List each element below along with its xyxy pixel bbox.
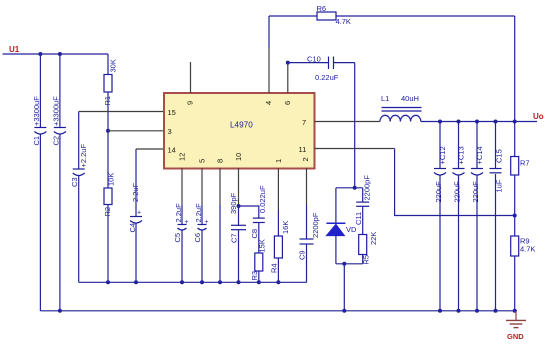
wire R7 to R9	[514, 175, 516, 236]
svg-text:+2.2uF: +2.2uF	[79, 144, 88, 168]
svg-text:220uF: 220uF	[453, 181, 462, 203]
capacitor C9	[298, 205, 321, 282]
svg-text:L4970: L4970	[230, 121, 253, 130]
junction dot pin6/C10	[286, 61, 290, 65]
diode VD	[326, 188, 357, 264]
svg-text:C1: C1	[32, 136, 41, 146]
svg-text:0.022uF: 0.022uF	[258, 185, 267, 213]
junction dots upper rail	[106, 280, 110, 284]
wire input rail	[3, 53, 109, 55]
wire R1 to R2 (through pin3 node)	[107, 92, 109, 188]
wire C10 down to VD node	[354, 63, 356, 188]
svg-text:10: 10	[234, 153, 243, 161]
svg-text:R4: R4	[269, 263, 278, 273]
svg-text:5: 5	[198, 159, 207, 163]
capacitor C11	[354, 175, 372, 235]
svg-text:14: 14	[168, 146, 176, 155]
svg-text:12: 12	[178, 153, 187, 161]
capacitor C1	[32, 54, 47, 311]
svg-text:VD: VD	[346, 225, 357, 234]
junction dot C1/input	[38, 52, 42, 56]
svg-text:+C14: +C14	[475, 146, 484, 164]
junction dot C2/input	[58, 52, 62, 56]
svg-text:C11: C11	[354, 212, 363, 225]
svg-text:3: 3	[168, 127, 172, 136]
svg-text:220uF: 220uF	[471, 181, 480, 203]
svg-text:2: 2	[301, 157, 310, 161]
svg-text:15: 15	[168, 108, 176, 117]
svg-text:GND: GND	[507, 332, 524, 341]
pin 4 stub	[268, 16, 270, 47]
svg-text:+: +	[137, 210, 141, 217]
junction dot pin10/C8 branch	[237, 204, 241, 208]
wire R9 to ground	[514, 256, 516, 311]
svg-text:C8: C8	[250, 229, 259, 239]
pin 6 stub	[287, 63, 289, 93]
capacitor C14	[471, 122, 484, 311]
capacitor C13	[453, 122, 466, 311]
svg-text:+C13: +C13	[457, 146, 466, 164]
ground GND symbol	[506, 311, 526, 341]
svg-text:L1: L1	[381, 94, 389, 103]
svg-text:+: +	[185, 219, 189, 226]
svg-text:390pF: 390pF	[229, 192, 238, 214]
resistor R6	[317, 4, 351, 26]
svg-text:4.7K: 4.7K	[336, 17, 351, 26]
junction dots bottom line	[342, 309, 346, 313]
svg-text:2200pF: 2200pF	[363, 175, 372, 201]
svg-text:2.2uF: 2.2uF	[131, 182, 140, 202]
svg-text:C3: C3	[70, 177, 79, 187]
svg-text:1uF: 1uF	[495, 179, 504, 192]
wire branch to C8	[239, 206, 259, 218]
svg-text:C6: C6	[193, 233, 202, 243]
svg-text:9: 9	[186, 101, 195, 105]
resistor R7	[511, 157, 530, 176]
capacitor C8	[250, 185, 267, 253]
svg-text:1: 1	[274, 159, 283, 163]
svg-text:C7: C7	[230, 233, 239, 243]
diode VD branch: top rung	[336, 187, 363, 189]
capacitor C3	[70, 112, 88, 283]
junction dot bottom rung	[342, 262, 346, 266]
pin 9 stub	[190, 62, 192, 93]
svg-text:Uo: Uo	[533, 112, 544, 121]
wire output rail	[421, 121, 537, 123]
capacitor C2	[51, 54, 66, 311]
svg-text:16K: 16K	[281, 221, 290, 234]
svg-text:8: 8	[216, 159, 225, 163]
svg-text:10K: 10K	[107, 173, 116, 186]
svg-text:22K: 22K	[369, 232, 378, 245]
wire pin14	[136, 148, 165, 150]
svg-text:4: 4	[264, 101, 273, 105]
resistor R4	[269, 210, 290, 282]
junction dot R1/pin3	[106, 129, 110, 133]
capacitor C5	[173, 203, 189, 282]
svg-text:+C12: +C12	[438, 146, 447, 164]
svg-text:+3300uF: +3300uF	[32, 96, 41, 126]
svg-text:R7: R7	[520, 159, 530, 168]
svg-text:C10: C10	[307, 55, 321, 64]
resistor R3	[250, 239, 267, 282]
resistor R2	[103, 173, 116, 283]
svg-text:4.7K: 4.7K	[520, 245, 535, 254]
svg-text:30K: 30K	[109, 59, 118, 72]
wire upper ground rail	[79, 281, 307, 283]
bottom pin stubs 12,5,8,10,1,2	[181, 168, 183, 205]
svg-text:C5: C5	[173, 233, 182, 243]
junction dots output rail	[438, 120, 442, 124]
svg-text:6: 6	[283, 101, 292, 105]
resistor R5	[359, 232, 378, 265]
svg-text:C15: C15	[495, 149, 504, 163]
wire pin7 to L1	[315, 121, 381, 123]
svg-text:40uH: 40uH	[401, 94, 419, 103]
svg-text:+3300uF: +3300uF	[51, 96, 60, 126]
junction dot feedback/R7R9	[513, 214, 517, 218]
resistor R9	[511, 236, 536, 256]
svg-text:R3: R3	[250, 271, 259, 281]
junction dot C2/bottom	[58, 309, 62, 313]
capacitor C10	[288, 55, 355, 83]
wire pin11	[315, 148, 395, 150]
junction dot C10 line lands	[353, 186, 357, 190]
svg-text:C9: C9	[298, 250, 307, 260]
wire bottom rung	[336, 263, 363, 265]
svg-text:220uF: 220uF	[434, 181, 443, 203]
capacitor C15	[490, 122, 504, 311]
svg-text:7: 7	[302, 118, 306, 127]
capacitor C4	[128, 149, 142, 282]
wire bottom ground line	[40, 310, 517, 312]
svg-text:+: +	[205, 219, 209, 226]
inductor L1	[380, 94, 422, 122]
capacitor C6	[193, 203, 209, 282]
svg-text:R6: R6	[317, 4, 327, 13]
svg-text:C4: C4	[128, 223, 137, 233]
wire R6 right down through output rail	[514, 16, 516, 156]
wire pin11 feedback route	[395, 149, 515, 216]
svg-text:2200pF: 2200pF	[311, 212, 320, 238]
wire pin8 to rail	[219, 205, 221, 282]
resistor R1	[103, 54, 118, 106]
wire pin3	[108, 130, 165, 132]
svg-text:2.2uF: 2.2uF	[194, 203, 203, 223]
svg-text:U1: U1	[9, 45, 20, 54]
wire pin15	[79, 111, 165, 113]
svg-text:2.2uF: 2.2uF	[174, 203, 183, 223]
svg-text:15K: 15K	[258, 239, 267, 252]
wire top R6 line	[269, 15, 515, 17]
wire rung to bottom ground line	[343, 264, 345, 311]
svg-text:C2: C2	[51, 136, 60, 146]
capacitor C7	[229, 192, 246, 282]
capacitor C12	[434, 122, 447, 311]
svg-text:0.22uF: 0.22uF	[315, 73, 339, 82]
op-amp regulator U? IC L4970 body	[164, 93, 315, 169]
svg-text:11: 11	[299, 145, 307, 154]
